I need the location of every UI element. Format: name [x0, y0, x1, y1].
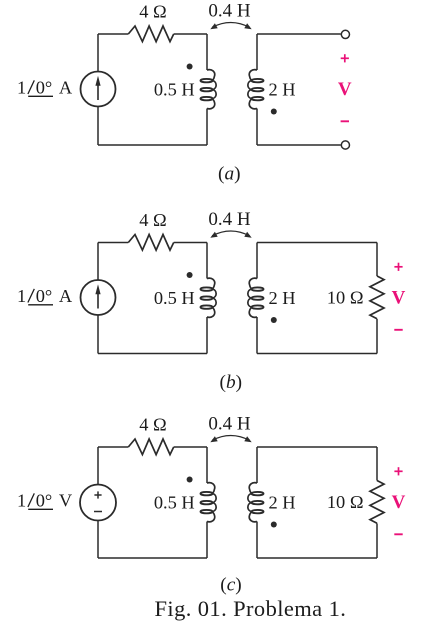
inductor L3b 2H coil exit arc — [249, 512, 257, 522]
wire secondary top to load — [257, 242, 377, 244]
wire secondary coil bottom lead — [256, 317, 258, 354]
inductor L3b 2H loop 2 — [252, 501, 264, 504]
wire secondary coil top lead — [256, 243, 258, 279]
voltage source V3 minus sign — [94, 511, 102, 513]
inductor L3a 0.5H loop 2 — [201, 501, 213, 504]
wire top left (source to resistor R2) — [98, 242, 128, 244]
svg-text:0.5 H: 0.5 H — [154, 80, 195, 100]
dot marking dot secondary L2b — [271, 317, 277, 323]
inductor L1b 2H arc 2-3 — [248, 90, 252, 99]
mutual inductance arrow M2 — [212, 231, 250, 236]
inductor L2b 2H arc 2-3 — [248, 298, 252, 307]
svg-text:A: A — [59, 77, 73, 97]
wire top right (resistor R3 to coil) — [174, 446, 207, 448]
wire left top (node to source I2) — [97, 243, 99, 281]
svg-text:0°: 0° — [36, 77, 53, 97]
svg-text:4 Ω: 4 Ω — [139, 414, 166, 434]
label polarity minus — [341, 120, 349, 122]
dot marking dot secondary L3b — [271, 522, 277, 528]
wire bottom left loop — [98, 353, 207, 355]
svg-text:2 H: 2 H — [269, 288, 296, 308]
wire top right (resistor R1 to coil) — [174, 33, 207, 35]
svg-text:V: V — [392, 492, 406, 513]
wire left bottom (source I1 to node) — [97, 107, 99, 146]
inductor L2a 0.5H arc 2-3 — [213, 298, 217, 307]
mutual inductance arrowhead right — [244, 232, 251, 238]
wire load resistor top lead — [376, 447, 378, 481]
dot marking dot primary L2a — [187, 272, 193, 278]
svg-text:10 Ω: 10 Ω — [327, 492, 364, 512]
label polarity plus — [394, 266, 402, 268]
wire bottom left loop — [98, 557, 207, 559]
inductor L2a 0.5H coil entry arc — [207, 278, 215, 289]
inductor L2b 2H loop 1 — [252, 287, 264, 290]
inductor L2b 2H arc 1-2 — [248, 289, 252, 298]
current source I2 circle — [81, 280, 116, 315]
inductor L3a 0.5H coil entry arc — [207, 483, 215, 494]
svg-text:4 Ω: 4 Ω — [139, 210, 166, 230]
label polarity minus — [394, 533, 402, 535]
svg-text:1: 1 — [17, 286, 26, 306]
wire primary coil top lead — [206, 447, 208, 483]
wire secondary top to load — [257, 446, 377, 448]
svg-text:1: 1 — [17, 77, 26, 97]
inductor L2a 0.5H arc 1-2 — [213, 289, 217, 298]
dot marking dot primary L3a — [187, 477, 193, 483]
wire left bottom (source I2 to node) — [97, 315, 99, 354]
current source I1 arrow — [97, 85, 99, 101]
resistor R3b — [370, 481, 384, 524]
wire top left (source to resistor R1) — [98, 33, 128, 35]
mutual inductance arrowhead left — [210, 436, 217, 442]
resistor R3a — [128, 439, 173, 455]
svg-text:V: V — [338, 79, 352, 100]
inductor L1a 0.5H coil entry arc — [207, 70, 215, 81]
dot marking dot primary L1a — [187, 64, 193, 70]
inductor L2a 0.5H loop 3 — [201, 305, 213, 308]
inductor L3b 2H arc 2-3 — [248, 503, 252, 512]
svg-text:1: 1 — [17, 490, 26, 510]
wire primary coil bottom lead — [206, 522, 208, 559]
svg-text:4 Ω: 4 Ω — [139, 1, 166, 21]
inductor L2b 2H loop 3 — [252, 305, 264, 308]
wire top right (resistor R2 to coil) — [174, 242, 207, 244]
inductor L2b 2H coil entry arc — [249, 278, 257, 289]
svg-text:V: V — [392, 288, 406, 309]
dot marking dot secondary L1b — [271, 109, 277, 115]
mutual inductance arrow M3 — [212, 435, 250, 440]
mutual inductance arrowhead left — [210, 23, 217, 29]
inductor L2a 0.5H loop 1 — [201, 287, 213, 290]
svg-text:0.4 H: 0.4 H — [208, 209, 251, 230]
inductor L3b 2H arc 1-2 — [248, 494, 252, 503]
inductor L3b 2H loop 1 — [252, 492, 264, 495]
inductor L1a 0.5H arc 2-3 — [213, 90, 217, 99]
voltage source V3 circle — [80, 485, 116, 521]
inductor L3a 0.5H arc 2-3 — [213, 503, 217, 512]
svg-text:0°: 0° — [36, 490, 53, 510]
svg-text:10 Ω: 10 Ω — [327, 288, 364, 308]
wire left bottom (source V3 to node) — [97, 521, 99, 559]
svg-text:(b): (b) — [220, 372, 242, 393]
svg-text:Fig. 01. Problema 1.: Fig. 01. Problema 1. — [155, 596, 347, 621]
inductor L2a 0.5H coil exit arc — [207, 307, 215, 317]
inductor L1b 2H loop 2 — [252, 88, 264, 91]
wire primary coil top lead — [206, 243, 208, 279]
svg-text:A: A — [59, 286, 73, 306]
svg-text:2 H: 2 H — [269, 80, 296, 100]
wire left top (node to source I1) — [97, 34, 99, 72]
inductor L3a 0.5H loop 1 — [201, 492, 213, 495]
svg-text:0.5 H: 0.5 H — [154, 288, 195, 308]
svg-text:0°: 0° — [36, 286, 53, 306]
wire left top (node to source V3) — [97, 447, 99, 485]
wire secondary top to terminal — [257, 33, 341, 35]
svg-text:(c): (c) — [220, 574, 241, 595]
current source I2 arrow — [97, 293, 99, 309]
inductor L3a 0.5H coil exit arc — [207, 512, 215, 522]
wire primary coil top lead — [206, 34, 208, 70]
resistor R2a — [128, 235, 173, 251]
wire primary coil bottom lead — [206, 317, 208, 354]
svg-text:0.5 H: 0.5 H — [154, 493, 195, 513]
wire load resistor bottom lead — [376, 319, 378, 354]
inductor L1b 2H coil entry arc — [249, 70, 257, 81]
inductor L2b 2H loop 2 — [252, 296, 264, 299]
resistor R2b — [370, 276, 384, 319]
resistor R1a — [128, 26, 173, 42]
wire secondary coil top lead — [256, 447, 258, 483]
voltage source V3 plus sign — [94, 494, 101, 496]
label polarity plus — [394, 470, 402, 472]
wire secondary bottom to load — [257, 353, 377, 355]
label polarity minus — [394, 329, 402, 331]
current source I1 circle — [81, 72, 116, 107]
terminal node top — [341, 30, 349, 38]
mutual inductance arrowhead right — [244, 23, 251, 29]
inductor L1b 2H coil exit arc — [249, 99, 257, 109]
mutual inductance arrowhead right — [244, 436, 251, 442]
inductor L1a 0.5H loop 2 — [201, 88, 213, 91]
wire secondary coil bottom lead — [256, 109, 258, 146]
wire secondary coil top lead — [256, 34, 258, 70]
svg-text:2 H: 2 H — [269, 493, 296, 513]
wire top left (source to resistor R3) — [98, 446, 128, 448]
inductor L2a 0.5H loop 2 — [201, 296, 213, 299]
inductor L3b 2H coil entry arc — [249, 483, 257, 494]
inductor L1b 2H loop 1 — [252, 79, 264, 82]
svg-text:0.4 H: 0.4 H — [208, 1, 251, 22]
label polarity plus — [341, 57, 349, 59]
wire load resistor top lead — [376, 243, 378, 277]
mutual inductance arrow M1 — [212, 22, 250, 27]
wire load resistor bottom lead — [376, 523, 378, 558]
mutual inductance arrowhead left — [210, 232, 217, 238]
wire secondary coil bottom lead — [256, 522, 258, 559]
inductor L2b 2H coil exit arc — [249, 307, 257, 317]
wire bottom left loop — [98, 144, 207, 146]
inductor L1a 0.5H loop 3 — [201, 97, 213, 100]
inductor L3a 0.5H loop 3 — [201, 510, 213, 513]
wire secondary bottom to load — [257, 557, 377, 559]
inductor L1b 2H loop 3 — [252, 97, 264, 100]
wire secondary bottom to terminal — [257, 144, 341, 146]
inductor L1a 0.5H arc 1-2 — [213, 81, 217, 90]
wire primary coil bottom lead — [206, 109, 208, 146]
inductor L1a 0.5H coil exit arc — [207, 99, 215, 109]
terminal node bottom — [341, 141, 349, 149]
svg-text:V: V — [59, 490, 73, 510]
inductor L1a 0.5H loop 1 — [201, 79, 213, 82]
svg-text:0.4 H: 0.4 H — [208, 414, 251, 435]
inductor L3a 0.5H arc 1-2 — [213, 494, 217, 503]
svg-text:(a): (a) — [218, 163, 240, 184]
inductor L3b 2H loop 3 — [252, 510, 264, 513]
inductor L1b 2H arc 1-2 — [248, 81, 252, 90]
